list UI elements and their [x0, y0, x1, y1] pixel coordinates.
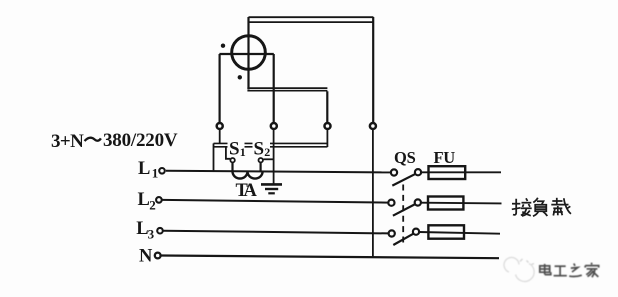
工 — [555, 265, 566, 267]
svg-text:S: S — [229, 139, 240, 160]
node L3 terminal circle — [157, 228, 163, 234]
main line L1 — [166, 171, 391, 173]
svg-text:S: S — [254, 139, 265, 160]
TA box double line lower — [214, 146, 328, 148]
电 — [544, 264, 546, 275]
watermark 电工之家 hand-drawn glyphs — [540, 263, 599, 278]
CT TA secondary winding stub left — [231, 163, 233, 172]
svg-text:2: 2 — [264, 145, 270, 159]
switch QS pole 1 circles — [391, 169, 397, 175]
wire: meter current coil horizontal — [219, 53, 273, 55]
接 — [513, 199, 516, 215]
main line L2 — [162, 200, 388, 203]
wire: jog from box to S1 terminal — [226, 147, 230, 159]
CT terminal S2 circle — [259, 158, 263, 162]
polarity dot upper left — [221, 44, 225, 48]
wire: lower double line upper (voltage coil lead) — [247, 87, 327, 89]
svg-text:TA: TA — [236, 181, 258, 201]
家 — [591, 263, 593, 265]
switch QS linkage dashed line — [402, 185, 404, 244]
svg-text:3+N: 3+N — [51, 131, 84, 152]
svg-text:L: L — [138, 159, 150, 179]
switch QS pole 3 blade — [393, 234, 413, 245]
负 — [533, 198, 538, 203]
ground symbol — [261, 184, 282, 193]
svg-text:1: 1 — [152, 166, 159, 181]
svg-text:L: L — [138, 190, 150, 210]
terminal 1 — [217, 123, 223, 129]
svg-text:3: 3 — [148, 226, 155, 241]
switch QS pole 3 circles — [389, 230, 395, 236]
label S1 — [228, 139, 246, 160]
wire: top double line upper (meter voltage lead) — [249, 16, 374, 18]
main line L3 — [163, 231, 388, 234]
fuse FU 2 body — [428, 197, 463, 210]
svg-text:380/220V: 380/220V — [103, 130, 178, 151]
node L2 terminal circle — [156, 197, 162, 203]
wire: vertical from lower double line to terminal 3 — [326, 91, 328, 122]
CT TA secondary winding stub right — [260, 163, 262, 172]
switch QS pole 2 blade — [393, 204, 416, 216]
TA box left edge down to L1 line — [213, 143, 215, 171]
node L1 terminal circle — [159, 168, 165, 174]
fuse FU 1 body — [429, 166, 466, 179]
之 — [574, 264, 575, 266]
terminal 4 — [370, 123, 376, 129]
svg-text:1: 1 — [240, 145, 246, 159]
wire: top double line lower — [249, 21, 374, 23]
label 接负载 (connect load) hand-drawn glyphs — [512, 198, 571, 216]
main line N — [161, 256, 499, 259]
fuse FU 3 through wire — [419, 232, 500, 234]
svg-text:FU: FU — [434, 148, 456, 167]
wire: meter vertical (voltage coil axis) from top line through circle to lower line — [247, 17, 249, 90]
wire: terminal1 down to TA box — [219, 130, 221, 144]
CT terminal S1 circle — [230, 158, 234, 162]
logo watermark circles — [504, 257, 534, 281]
TA box double line upper — [214, 142, 328, 144]
terminal 3 — [325, 123, 331, 129]
label 3+N~380/220V source voltage — [51, 130, 178, 152]
polarity dot lower — [238, 75, 242, 79]
wire: left vertical current lead down to terminal 1 — [219, 54, 221, 122]
wire: terminal3 down to TA double line — [326, 130, 328, 147]
svg-text:N: N — [139, 246, 153, 266]
label S2 — [253, 139, 271, 160]
wire: terminal4 down to N line — [372, 130, 374, 257]
node N terminal circle — [155, 253, 161, 259]
op-meter kWh meter circle — [232, 36, 266, 70]
svg-text:2: 2 — [149, 198, 156, 213]
CT TA secondary winding arcs — [233, 172, 263, 179]
载 — [552, 200, 562, 202]
svg-text:QS: QS — [394, 148, 416, 167]
terminal 2 — [271, 123, 277, 129]
wire: S2 terminal to ground stem — [263, 158, 273, 160]
switch QS pole 1 blade — [392, 174, 415, 186]
fuse FU 3 body — [428, 225, 464, 238]
fuse FU 2 through wire — [421, 202, 502, 205]
fuse FU 1 through wire — [421, 171, 501, 173]
wire: right vertical from top line down to terminal 4 — [372, 17, 374, 122]
wire: lower double line lower — [247, 90, 327, 92]
switch QS pole 2 circles — [388, 200, 394, 206]
wire: terminal2 down to ground — [273, 130, 275, 184]
wire: right vertical current lead down to terminal 2 — [273, 54, 275, 122]
